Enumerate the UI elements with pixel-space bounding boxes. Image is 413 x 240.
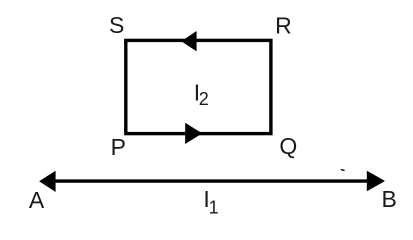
svg-text:P: P xyxy=(111,134,126,160)
arrowhead at A end of wire (points left) xyxy=(39,171,56,192)
straight wire AB xyxy=(53,179,369,182)
current arrow on bottom side PQ (points right toward Q) xyxy=(185,123,202,144)
wire loop PQRS (rectangular current loop) xyxy=(126,40,271,133)
svg-text:I2: I2 xyxy=(194,80,209,109)
svg-text:I1: I1 xyxy=(203,186,218,218)
svg-text:A: A xyxy=(29,187,45,213)
arrowhead at B end of wire (points right) xyxy=(367,171,385,192)
svg-text:Q: Q xyxy=(279,133,297,159)
stray ink mark above wire near B xyxy=(340,169,345,171)
svg-text:R: R xyxy=(275,13,292,39)
svg-text:S: S xyxy=(109,12,124,38)
current arrow on top side SR (points left toward S) xyxy=(181,31,196,51)
svg-text:B: B xyxy=(382,186,397,212)
